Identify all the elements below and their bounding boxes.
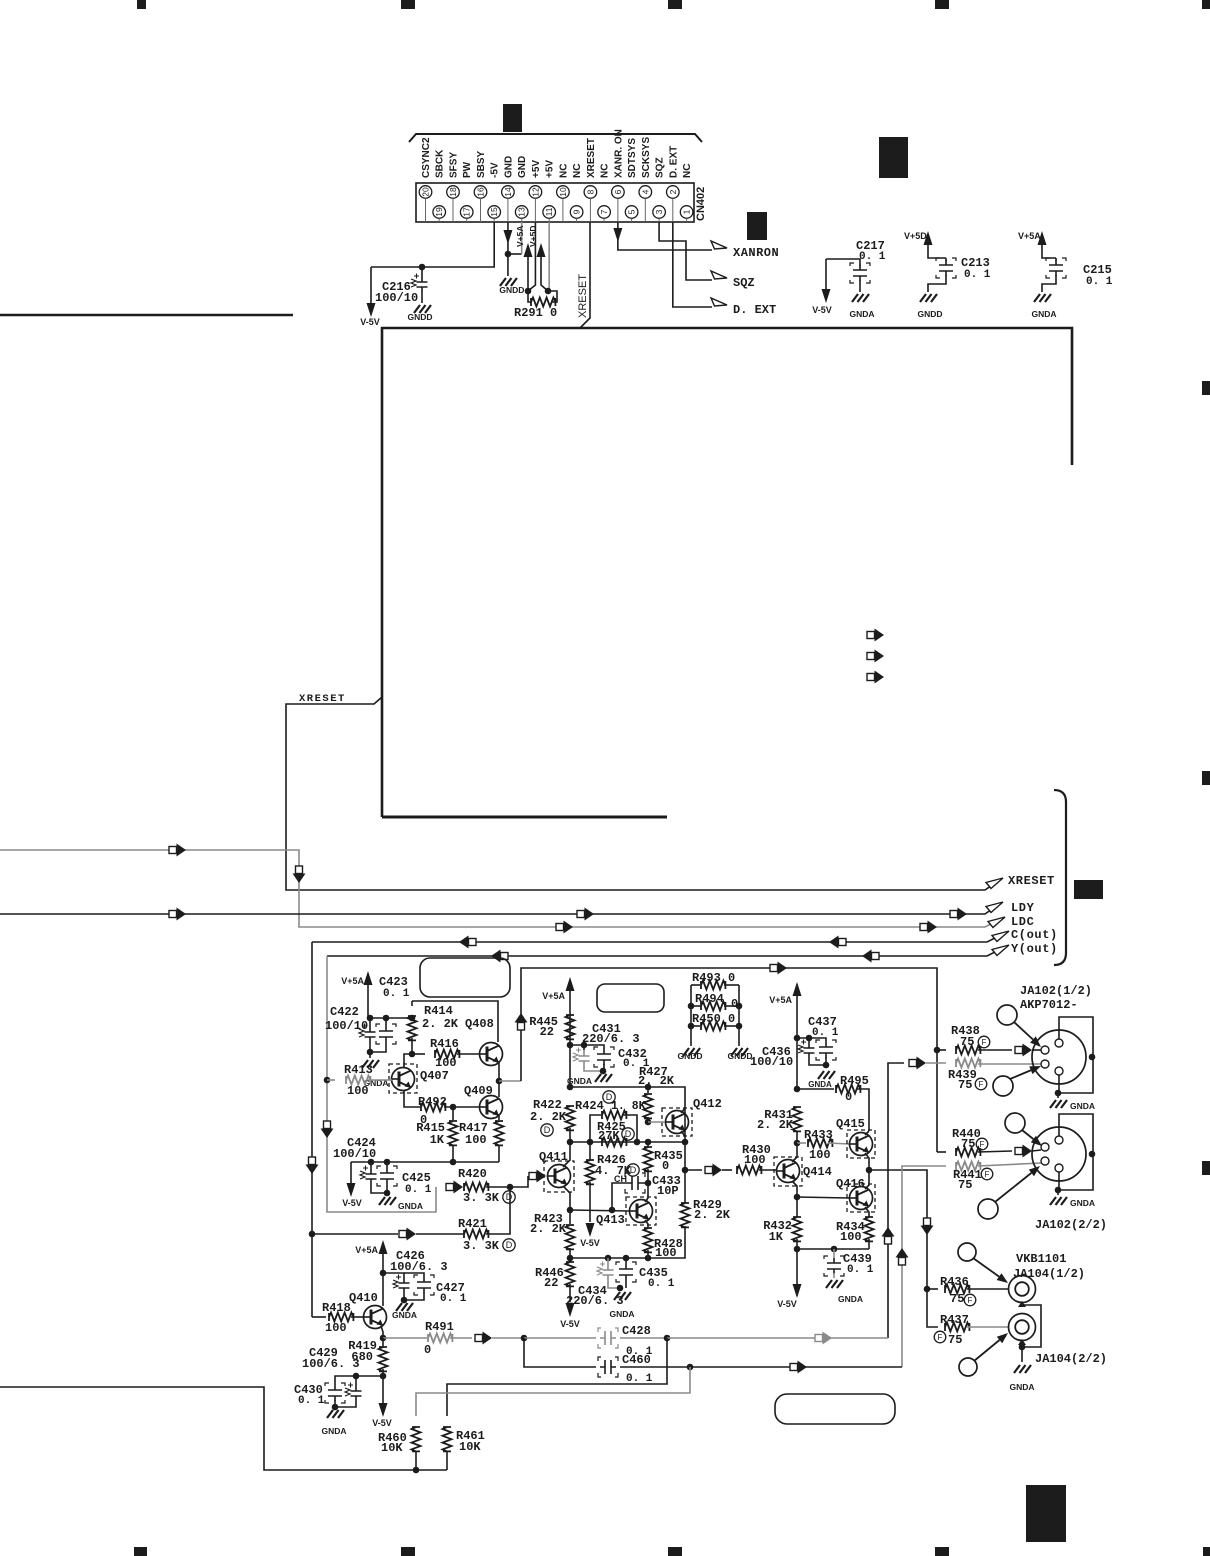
svg-text:5: 5 (627, 209, 637, 214)
pin 19 of CN402 (SBCK) (433, 206, 446, 219)
plug pin indicator (JA102 2/2 hot) (1005, 1113, 1025, 1133)
svg-text:R421: R421 (458, 1217, 487, 1231)
pin 2 of CN402 (D. EXT) (667, 186, 680, 199)
brace over connector CN402 (409, 134, 702, 142)
wire C(out) (312, 932, 1007, 942)
svg-text:NC: NC (558, 164, 569, 178)
svg-text:75: 75 (960, 1035, 974, 1049)
svg-text:0. 1: 0. 1 (859, 251, 886, 263)
svg-text:Q416: Q416 (836, 1177, 865, 1191)
capacitor C424 100/10 (370, 1162, 372, 1168)
power flag V-5V (R446) (566, 1303, 575, 1317)
JA104 feed junction (924, 1286, 931, 1293)
svg-text:V+5A: V+5A (542, 991, 565, 1001)
svg-text:GNDA: GNDA (398, 1201, 423, 1211)
black box (redacted) right middle (1074, 880, 1103, 899)
resistor R445 22 (566, 1015, 575, 1039)
svg-text:6: 6 (613, 189, 623, 194)
resistor R433 100 (797, 1142, 806, 1144)
svg-text:C(out): C(out) (1011, 928, 1058, 942)
resistor R429 2.2K (681, 1203, 690, 1227)
wire Q409 collector to Q408 emitter (498, 1081, 500, 1097)
wire C(out) drop to Q410 stage (311, 942, 313, 1317)
wire off-page left (top) (0, 314, 293, 317)
output node Q415/Q416 (866, 1167, 873, 1174)
ground GNDA (C439) (826, 1280, 843, 1288)
svg-text:F: F (985, 1170, 990, 1179)
svg-text:R437: R437 (940, 1313, 969, 1327)
capacitor C215 0.1 (1055, 258, 1057, 261)
signal flag SQZ (711, 271, 727, 279)
svg-text:0. 1: 0. 1 (383, 988, 410, 1000)
svg-text:R416: R416 (430, 1037, 459, 1051)
svg-text:F: F (968, 1296, 973, 1305)
ground GNDA (C434/C435) (617, 1285, 624, 1292)
signal flag XANRON (711, 241, 727, 249)
svg-text:0. 1: 0. 1 (405, 1184, 432, 1196)
capacitor C429 100/6.3 (355, 1376, 357, 1385)
capacitor C431 220/6.3 (583, 1045, 585, 1050)
jumper rails R493/R494/R450 (690, 985, 692, 1046)
wire D.EXT from pin 2 (673, 222, 712, 307)
resistor R413 100 (327, 1079, 335, 1081)
resistor R422 2.2K (566, 1106, 575, 1130)
pin 9 of CN402 (NC) (570, 206, 583, 219)
svg-text:C428: C428 (622, 1324, 651, 1338)
wire Q414 emitter (792, 1181, 797, 1197)
black box (redacted) bottom right (1026, 1485, 1066, 1542)
capacitor C423 0.1 (385, 1018, 387, 1026)
svg-text:220/6. 3: 220/6. 3 (582, 1032, 640, 1046)
svg-text:GNDD: GNDD (917, 309, 942, 319)
svg-text:LDY: LDY (1011, 901, 1035, 915)
wire LDC from left edge (0, 850, 1003, 927)
power flag V-5V (right stage) (796, 1249, 798, 1284)
svg-text:22: 22 (540, 1025, 554, 1039)
resistor R423 2.2K (569, 1210, 571, 1224)
svg-text:100/10: 100/10 (750, 1055, 793, 1069)
svg-text:+5V: +5V (545, 160, 556, 178)
right stage bottom rail (797, 1248, 869, 1250)
svg-text:F: F (979, 1080, 984, 1089)
black box (redacted) top right (879, 137, 908, 178)
wire XANR.ON from pin 6 (618, 222, 712, 250)
svg-text:100: 100 (347, 1084, 369, 1098)
transistor Q416 (847, 1184, 875, 1212)
svg-text:8: 8 (585, 189, 595, 194)
capacitor C427 0.1 (404, 1273, 424, 1277)
capacitor C422 100/10 (369, 1018, 371, 1026)
svg-text:F: F (938, 1333, 943, 1342)
power flag V+5A (527, 252, 529, 291)
svg-text:CSYNC2: CSYNC2 (421, 137, 432, 178)
wire Q412 collector/emitter to output column (681, 1108, 685, 1113)
svg-text:R414: R414 (424, 1004, 453, 1018)
svg-text:Q415: Q415 (836, 1117, 865, 1131)
svg-text:XRESET: XRESET (1008, 874, 1055, 888)
svg-text:Q413: Q413 (596, 1213, 625, 1227)
resistor R428 100 (645, 1220, 648, 1228)
power flag V-5V (370, 267, 372, 304)
svg-text:C213: C213 (961, 256, 990, 270)
middle stage top rail (569, 1045, 571, 1087)
svg-text:SFSY: SFSY (448, 152, 459, 178)
signal flag LDY (986, 902, 1003, 913)
pin 8 of CN402 (XRESET) (584, 186, 597, 199)
wire R420 to Q411 base (510, 1176, 528, 1187)
connector JA104 (2/2) RCA jack (1009, 1314, 1036, 1341)
svg-text:10K: 10K (459, 1440, 481, 1454)
svg-text:9: 9 (572, 209, 582, 214)
signal flag D.EXT (711, 298, 727, 306)
capacitor C434 220/6.3 (607, 1258, 609, 1264)
svg-text:C215: C215 (1083, 263, 1112, 277)
power flag V-5V (Q410) (382, 1376, 384, 1403)
svg-text:LDC: LDC (1011, 915, 1034, 929)
svg-text:XANRON: XANRON (733, 246, 779, 260)
junction +5VD (545, 288, 552, 295)
resistor R439 75 (909, 1060, 917, 1067)
svg-text:XANR. ON: XANR. ON (613, 129, 624, 178)
svg-text:R493 0: R493 0 (692, 971, 735, 985)
resistor R446 22 (569, 1258, 571, 1262)
power flag V-5V (R426) (586, 1223, 595, 1237)
svg-text:V+5D: V+5D (904, 231, 927, 241)
ground GNDA (JA102 2/2) (1057, 1190, 1059, 1195)
wire Q410 collector (382, 1273, 384, 1306)
resistor R414 2.2K (411, 1001, 413, 1006)
svg-text:1: 1 (682, 209, 692, 214)
svg-text:XRESET: XRESET (577, 274, 589, 318)
callout box (blank) bottom (775, 1394, 895, 1424)
ground GNDA (C217) (852, 294, 869, 302)
wire C428 riser to R439 (888, 1063, 904, 1338)
svg-text:3: 3 (654, 209, 664, 214)
resistor R491 0 (383, 1337, 427, 1339)
svg-text:V+5A: V+5A (1018, 231, 1041, 241)
svg-text:V+5A: V+5A (355, 1245, 378, 1255)
svg-text:R433: R433 (804, 1128, 833, 1142)
svg-text:20: 20 (421, 187, 431, 197)
connector JA102 (2/2) XLR body (1032, 1127, 1086, 1181)
connector JA104 (1/2) RCA jack (1009, 1276, 1036, 1303)
svg-text:0. 1: 0. 1 (964, 269, 991, 281)
svg-text:R436: R436 (940, 1275, 969, 1289)
svg-text:100: 100 (809, 1148, 831, 1162)
signal flag LDC (988, 917, 1005, 928)
svg-text:0. 1: 0. 1 (440, 1293, 467, 1305)
wire Q410 emitter node (381, 1326, 383, 1338)
svg-text:0. 1: 0. 1 (847, 1264, 874, 1276)
svg-text:V+5A: V+5A (341, 976, 364, 986)
svg-text:GNDD: GNDD (407, 312, 432, 322)
svg-text:2. 2K: 2. 2K (694, 1208, 731, 1222)
svg-text:GNDA: GNDA (849, 309, 874, 319)
svg-text:R494: R494 (695, 992, 724, 1006)
transistor Q409 (480, 1096, 503, 1119)
svg-text:100: 100 (465, 1133, 487, 1147)
JA102 (1/2) shell wiring (1058, 1017, 1093, 1093)
svg-text:Q412: Q412 (693, 1097, 722, 1111)
svg-text:GNDA: GNDA (808, 1080, 832, 1089)
svg-text:2: 2 (668, 189, 678, 194)
signal flag C(out) (992, 931, 1009, 942)
resistor R420 3.3K (446, 1184, 454, 1191)
resistor R434 100 (865, 1207, 869, 1217)
power flag V+5D (C213) (924, 231, 933, 245)
power flag V+5D (541, 252, 548, 291)
wire Y-drop to R420 input (327, 1141, 436, 1212)
svg-text:V+5D: V+5D (528, 226, 538, 248)
svg-text:-5V: -5V (490, 162, 501, 178)
svg-text:+5V: +5V (531, 160, 542, 178)
svg-text:GND: GND (503, 156, 514, 178)
resistor R416 100 (409, 1051, 416, 1058)
wire Q414 collector (792, 1143, 797, 1162)
svg-text:GNDA: GNDA (392, 1310, 417, 1320)
pin 7 of CN402 (NC) (598, 206, 611, 219)
ground GNDD (C216) (414, 305, 431, 313)
power flag V-5V (left stage) (350, 1162, 352, 1184)
wire SQZ from pin 3 (659, 222, 712, 280)
svg-text:75: 75 (958, 1178, 972, 1192)
svg-text:GNDA: GNDA (321, 1426, 346, 1436)
wire R491 output (C-composite line) (475, 1335, 483, 1342)
V+5A rail (right stage) (794, 1035, 801, 1042)
svg-text:100/10: 100/10 (333, 1147, 376, 1161)
svg-text:NC: NC (572, 164, 583, 178)
svg-text:100: 100 (840, 1230, 862, 1244)
svg-text:Q414: Q414 (803, 1165, 832, 1179)
svg-text:100: 100 (744, 1153, 766, 1167)
svg-text:GNDA: GNDA (1009, 1382, 1034, 1392)
svg-text:2. 2K: 2. 2K (757, 1118, 794, 1132)
ground GNDA (JA104) (1021, 1347, 1023, 1362)
wire middle output to R430 (685, 1169, 702, 1171)
svg-text:10K: 10K (381, 1441, 403, 1455)
svg-text:100/10: 100/10 (325, 1019, 368, 1033)
svg-text:SQZ: SQZ (655, 157, 666, 178)
svg-text:10P: 10P (657, 1184, 679, 1198)
black box (redacted) above connector (503, 104, 522, 132)
transistor Q414 (774, 1157, 802, 1186)
middle stage bottom rail (570, 1226, 685, 1258)
svg-text:R450 0: R450 0 (692, 1012, 735, 1026)
resistor R417 100 (498, 1116, 500, 1120)
pin 10 of CN402 (NC) (557, 186, 570, 199)
ground GNDA (C422/C423) (367, 1049, 374, 1056)
svg-text:F: F (980, 1140, 985, 1149)
node R431/R433 (794, 1140, 801, 1147)
capacitor C439 0.1 (833, 1249, 835, 1258)
capacitor C217 0.1 (826, 259, 860, 266)
svg-text:15: 15 (489, 207, 499, 217)
svg-text:CN402: CN402 (695, 187, 707, 221)
resistor R419 680 (382, 1338, 384, 1347)
svg-text:V-5V: V-5V (360, 317, 380, 327)
transistor Q408 (480, 1043, 503, 1066)
svg-text:100/10: 100/10 (375, 291, 418, 305)
wire Q415 collector/emitter (865, 1131, 869, 1135)
svg-text:2. 2K: 2. 2K (422, 1017, 459, 1031)
svg-text:GNDA: GNDA (838, 1294, 863, 1304)
svg-text:R492: R492 (418, 1095, 447, 1109)
pin 6 of CN402 (XANR. ON) (612, 186, 625, 199)
wire C428 tap to R461 (447, 1338, 667, 1416)
transistor Q413 (626, 1197, 656, 1225)
wire Q411 collector (563, 1128, 570, 1167)
pin 16 of CN402 (SBSY) (474, 186, 487, 199)
svg-text:2. 2K: 2. 2K (638, 1074, 675, 1088)
svg-text:12: 12 (530, 187, 540, 197)
right bracket (off-page connector) (1054, 790, 1066, 965)
wire GND pins 13/14 (507, 222, 509, 276)
svg-text:1. 8K: 1. 8K (611, 1100, 646, 1113)
wire C460 riser to R441 (902, 1166, 946, 1367)
svg-text:22: 22 (544, 1276, 558, 1290)
svg-text:1K: 1K (430, 1133, 445, 1147)
resistor R461 10K (443, 1427, 452, 1451)
svg-text:D: D (544, 1125, 551, 1135)
wire Y(out) (327, 946, 1007, 956)
plug pin indicator (JA102 2/2 cold) (978, 1199, 998, 1219)
junction node on -5V wire (419, 264, 426, 271)
svg-text:R495: R495 (840, 1074, 869, 1088)
svg-text:C425: C425 (402, 1171, 431, 1185)
resistor R450 0 (691, 1025, 700, 1027)
svg-text:R291 0: R291 0 (514, 306, 557, 320)
pin 3 of CN402 (SQZ) (653, 206, 666, 219)
wire Q413 collector (645, 1183, 648, 1202)
ground GNDA (JA102 1/2) (1057, 1093, 1059, 1098)
svg-text:D. EXT: D. EXT (668, 146, 679, 178)
svg-text:3. 3K: 3. 3K (463, 1191, 500, 1205)
svg-text:Q408: Q408 (465, 1017, 494, 1031)
svg-text:PW: PW (462, 161, 473, 178)
capacitor C213 0.1 (945, 258, 947, 261)
pin 14 of CN402 (GND) (502, 186, 515, 199)
svg-text:R418: R418 (322, 1301, 351, 1315)
resistor R441 75 (956, 1162, 980, 1171)
resistor R494 0 (691, 1005, 700, 1007)
resistor R430 100 (737, 1166, 761, 1175)
svg-text:Q407: Q407 (420, 1069, 449, 1083)
svg-text:100: 100 (435, 1056, 457, 1070)
capacitor C430 0.1 (328, 1385, 342, 1401)
svg-text:V+5A: V+5A (769, 995, 792, 1005)
ground GNDD (right jumper) (731, 1048, 748, 1056)
svg-text:GNDD: GNDD (499, 285, 524, 295)
svg-text:16: 16 (476, 187, 486, 197)
svg-text:2. 2K: 2. 2K (530, 1222, 567, 1236)
output node of middle stage (682, 1167, 689, 1174)
svg-text:CH: CH (614, 1174, 627, 1184)
plug pin indicator (JA102 1/2 cold) (993, 1076, 1013, 1096)
svg-text:D. EXT: D. EXT (733, 303, 776, 317)
svg-text:100/6. 3: 100/6. 3 (302, 1357, 360, 1371)
svg-text:V-5V: V-5V (560, 1319, 580, 1329)
svg-text:0: 0 (845, 1090, 852, 1104)
transistor Q407 (389, 1064, 417, 1093)
resistor R440 75 (937, 1151, 946, 1153)
svg-text:D: D (506, 1240, 513, 1250)
signal flag Y(out) (992, 945, 1009, 956)
svg-text:220/6. 3: 220/6. 3 (566, 1294, 624, 1308)
black box (redacted) near connector right (747, 212, 767, 240)
svg-text:10: 10 (558, 187, 568, 197)
wire Q411 emitter rail to Q413 base (570, 1210, 629, 1211)
ground GNDA (C431/C432) (600, 1068, 607, 1075)
callout box (blank) middle stage (597, 984, 664, 1012)
resistor R426 4.7K (589, 1142, 591, 1160)
svg-text:75: 75 (948, 1333, 962, 1347)
pin 1 of CN402 (NC) (680, 206, 693, 219)
wire output to JA104 feed (869, 1170, 927, 1289)
svg-text:SQZ: SQZ (733, 276, 755, 290)
resistor R418 100 (312, 1316, 326, 1318)
wire XRESET from pin 8 into IC (580, 222, 590, 328)
resistor R493 0 (691, 984, 700, 986)
resistor R436 75 (927, 1288, 938, 1290)
power flag V-5V (C217) (825, 259, 827, 290)
ground GNDA (C429/C430) (332, 1404, 339, 1411)
V+5A rail (middle stage) (567, 1042, 574, 1049)
svg-text:0: 0 (424, 1343, 431, 1357)
svg-text:GNDA: GNDA (1070, 1198, 1095, 1208)
svg-text:GNDA: GNDA (609, 1309, 634, 1319)
svg-text:0. 1: 0. 1 (812, 1027, 839, 1039)
svg-text:R491: R491 (425, 1320, 454, 1334)
svg-text:JA104(2/2): JA104(2/2) (1035, 1352, 1107, 1366)
power flag V+5A (C215) (1038, 231, 1047, 245)
capacitor C425 0.1 (386, 1162, 388, 1168)
svg-text:JA104(1/2): JA104(1/2) (1013, 1267, 1085, 1281)
ground GNDD (connector) (500, 278, 517, 286)
svg-text:R420: R420 (458, 1167, 487, 1181)
svg-text:100/6. 3: 100/6. 3 (390, 1260, 448, 1274)
svg-text:0. 1: 0. 1 (1086, 276, 1113, 288)
transistor Q412 (662, 1108, 692, 1136)
pin 4 of CN402 (SCKSYS) (639, 186, 652, 199)
svg-text:Q411: Q411 (539, 1150, 568, 1164)
border tick marks (page registration) (137, 0, 146, 9)
capacitor C437 0.1 (819, 1042, 833, 1058)
IC internal output arrows (867, 632, 875, 639)
svg-text:2. 2K: 2. 2K (530, 1110, 567, 1124)
svg-text:C422: C422 (330, 1005, 359, 1019)
svg-text:V-5V: V-5V (812, 305, 832, 315)
wire Q411 emitter (563, 1186, 570, 1210)
pin 17 of CN402 (PW) (460, 206, 473, 219)
resistor R415 1K (452, 1107, 454, 1120)
resistor R437 75 (945, 1323, 969, 1332)
svg-text:Q409: Q409 (464, 1084, 493, 1098)
wire Q416 collector (865, 1170, 869, 1189)
svg-text:0. 1: 0. 1 (298, 1395, 325, 1407)
pin 11 of CN402 (+5V) (543, 206, 556, 219)
resistor R438 75 (934, 1047, 941, 1054)
resistor R425 27K (602, 1138, 626, 1147)
wire +5V pin 12 to V+5A rail (528, 222, 535, 291)
power flag V+5A (middle stage) (566, 977, 575, 991)
IC block outline (contents blank) (382, 328, 1072, 817)
wire Q407 emitter to R414 node (404, 1054, 412, 1068)
JA102 (2/2) shell wiring (1058, 1114, 1093, 1190)
svg-text:V-5V: V-5V (372, 1418, 392, 1428)
plug indicator (JA104 2/2) (959, 1358, 977, 1376)
svg-text:18: 18 (448, 187, 458, 197)
svg-text:7: 7 (599, 209, 609, 214)
